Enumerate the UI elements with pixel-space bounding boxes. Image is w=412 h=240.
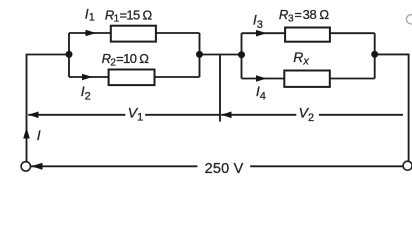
resistor R3 [285, 28, 330, 42]
wire left block left node vertical [68, 33, 70, 77]
svg-text:250 V: 250 V [205, 161, 244, 177]
resistor Rx [284, 71, 330, 87]
arrow current I3 [256, 30, 267, 37]
wire bottom left segment [31, 165, 197, 167]
wire bottom right segment [250, 165, 403, 167]
wire V2 dimension line [221, 114, 403, 116]
arrow current I2 [82, 74, 93, 81]
svg-text:R2=10 Ω: R2=10 Ω [102, 51, 150, 68]
wire middle link [200, 54, 242, 56]
junction node D [371, 51, 378, 58]
wire top branch 2 [242, 32, 375, 34]
terminal bottom left [21, 162, 30, 171]
svg-text:I: I [37, 127, 41, 143]
wire bottom branch 2 [242, 78, 375, 80]
wire right block left node vertical [241, 33, 243, 78]
wire V1/V2 divider [219, 55, 221, 122]
resistor R2 [109, 70, 155, 86]
terminal bottom right [403, 161, 412, 170]
arrow 250V left [31, 163, 42, 170]
wire bottom branch 1 [69, 76, 200, 78]
arrow V1 left [28, 112, 38, 119]
wire left block right node vertical [199, 33, 201, 77]
resistor R1 [111, 26, 156, 42]
wire right rail [375, 54, 409, 160]
wire top branch 1 [69, 32, 200, 34]
terminal stub top right (faint) [406, 15, 412, 24]
wire right block right node vertical [374, 33, 376, 78]
wire V1 dimension line [28, 114, 219, 116]
junction node A [66, 51, 73, 58]
arrow current I upward [23, 128, 30, 139]
junction node B [196, 51, 203, 58]
junction node C [238, 51, 245, 58]
arrow current I1 [86, 30, 97, 37]
arrow current I4 [256, 75, 267, 82]
svg-text:R3=38Ω: R3=38Ω [279, 7, 329, 24]
svg-text:R1=15 Ω: R1=15 Ω [105, 7, 153, 24]
wire left rail [27, 55, 70, 162]
arrow V2 left [221, 112, 231, 119]
